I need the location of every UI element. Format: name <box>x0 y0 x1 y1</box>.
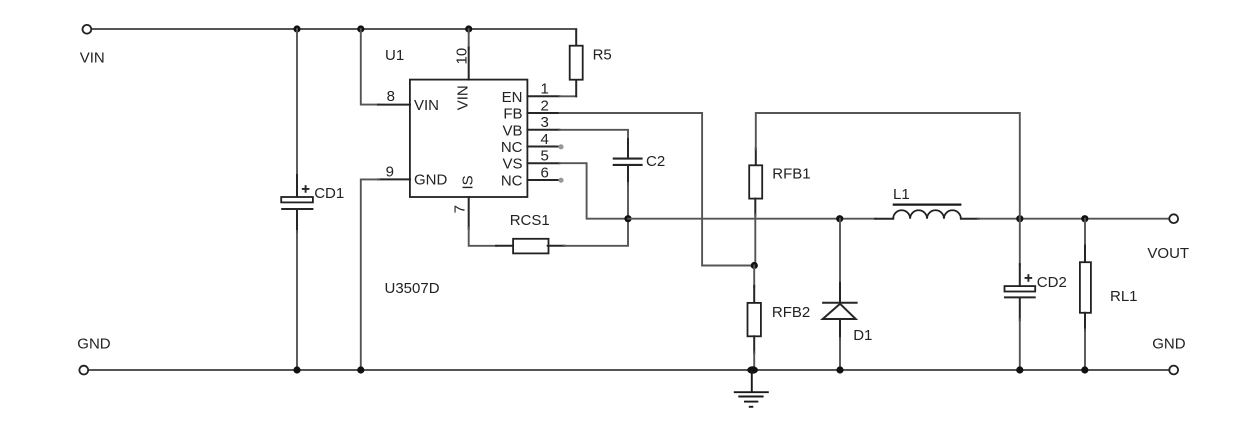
svg-text:3: 3 <box>541 114 549 131</box>
terminal VOUT <box>1169 214 1178 223</box>
wire CD2 top <box>1019 219 1021 265</box>
inductor L1 <box>893 210 961 218</box>
node junction top rail / pin8 branch <box>357 25 364 32</box>
resistor RFB1 <box>749 165 762 198</box>
svg-text:FB: FB <box>503 106 522 123</box>
svg-text:NC: NC <box>501 139 523 156</box>
node junction VS/C2/RCS1/out <box>624 215 631 222</box>
svg-text:6: 6 <box>541 164 549 181</box>
svg-text:IS: IS <box>459 175 476 189</box>
wire pin8 branch vertical <box>361 29 379 105</box>
terminal GND right <box>1169 366 1178 375</box>
svg-text:L1: L1 <box>893 186 910 203</box>
wire R5 top to rail <box>575 30 577 46</box>
svg-text:U3507D: U3507D <box>385 280 440 297</box>
wire pin6 NC stub <box>527 179 559 181</box>
op-amp/regulator U1 box <box>410 80 528 197</box>
node junction GND/pin9 <box>357 366 364 373</box>
svg-text:GND: GND <box>1152 336 1186 353</box>
diode D1 <box>822 303 858 319</box>
svg-text:RFB2: RFB2 <box>772 304 810 321</box>
wire RL1 top <box>1084 219 1086 247</box>
wire pin4 NC stub <box>527 146 559 148</box>
wire RFB1 bottom to FB node <box>754 199 756 216</box>
svg-text:R5: R5 <box>593 47 612 64</box>
wire GND rail <box>88 369 1169 371</box>
inductor L1 core bar <box>893 204 962 206</box>
wire CD1 top <box>296 29 298 176</box>
wire RCS1 to node <box>548 245 565 247</box>
wire pin1 EN to R5 <box>527 95 559 97</box>
resistor R5 <box>570 46 583 80</box>
terminal GND left <box>79 366 88 375</box>
wire pin3 VB to C2 <box>527 129 559 131</box>
wire C2 bottom <box>627 166 629 184</box>
svg-text:VIN: VIN <box>80 50 105 67</box>
node junction GND/CD2 <box>1016 366 1023 373</box>
svg-text:CD1: CD1 <box>314 185 344 202</box>
node junction D1 tap <box>836 215 843 222</box>
wire pin9 branch <box>378 178 410 180</box>
wire top rail VIN <box>92 28 577 30</box>
svg-text:5: 5 <box>541 148 549 165</box>
svg-text:U1: U1 <box>385 47 404 64</box>
wire feedback sense RFB1 top to VOUT node <box>755 148 757 165</box>
terminal VIN <box>83 25 92 34</box>
wire L1 to VOUT <box>961 218 979 220</box>
svg-text:10: 10 <box>454 48 471 65</box>
svg-text:VIN: VIN <box>414 97 439 114</box>
svg-text:GND: GND <box>414 172 448 189</box>
node junction FB divider <box>751 262 758 269</box>
ground symbol <box>734 370 769 407</box>
svg-text:CD2: CD2 <box>1037 274 1067 291</box>
node junction top rail / CD1 <box>293 25 300 32</box>
svg-text:RFB1: RFB1 <box>772 166 810 183</box>
node junction top rail / pin10 branch <box>465 25 472 32</box>
svg-text:8: 8 <box>387 88 395 105</box>
wire CD2 bottom <box>1019 298 1021 320</box>
wire pin10 branch <box>468 29 470 49</box>
node junction GND/RL1 <box>1081 366 1088 373</box>
svg-text:2: 2 <box>541 97 549 114</box>
capacitor CD1 <box>281 185 313 209</box>
no-connect dot pin 6 <box>558 178 563 183</box>
capacitor CD2 <box>1004 274 1036 297</box>
node junction CD2 tap <box>1016 215 1023 222</box>
resistor RFB2 <box>748 303 761 336</box>
svg-text:VS: VS <box>502 156 522 173</box>
wire CD1 bottom <box>296 210 298 232</box>
wire D1 cathode to output row <box>839 219 841 284</box>
svg-text:VIN: VIN <box>455 85 472 110</box>
resistor RCS1 <box>513 239 548 254</box>
node junction GND/D1 <box>836 366 843 373</box>
wire output row to L1 <box>628 218 876 220</box>
node junction GND/RFB2/ground symbol <box>747 366 758 373</box>
svg-text:VB: VB <box>502 122 522 139</box>
capacitor C2 <box>613 159 643 165</box>
svg-text:EN: EN <box>502 89 523 106</box>
wire pin2 FB net <box>527 112 559 114</box>
svg-text:GND: GND <box>77 336 111 353</box>
svg-text:RCS1: RCS1 <box>510 212 550 229</box>
resistor RL1 <box>1080 262 1091 313</box>
svg-text:NC: NC <box>501 173 523 190</box>
svg-text:9: 9 <box>386 163 394 180</box>
svg-text:4: 4 <box>541 131 549 148</box>
wire D1 anode to GND rail <box>839 319 841 339</box>
no-connect dot pin 4 <box>558 144 563 149</box>
svg-text:1: 1 <box>541 81 549 98</box>
wire pin5 VS net <box>527 162 559 164</box>
svg-text:D1: D1 <box>853 327 872 344</box>
wire pin7 IS to RCS1 <box>468 197 470 229</box>
wire RL1 bottom <box>1084 313 1086 331</box>
wire FB node to RFB2 <box>753 266 755 287</box>
svg-text:RL1: RL1 <box>1110 288 1138 305</box>
node junction RL1 tap <box>1081 215 1088 222</box>
svg-text:C2: C2 <box>646 153 665 170</box>
svg-text:VOUT: VOUT <box>1147 245 1189 262</box>
svg-text:7: 7 <box>451 205 468 213</box>
node junction GND/CD1 <box>293 366 300 373</box>
wire RFB2 bottom to GND rail <box>753 336 755 353</box>
